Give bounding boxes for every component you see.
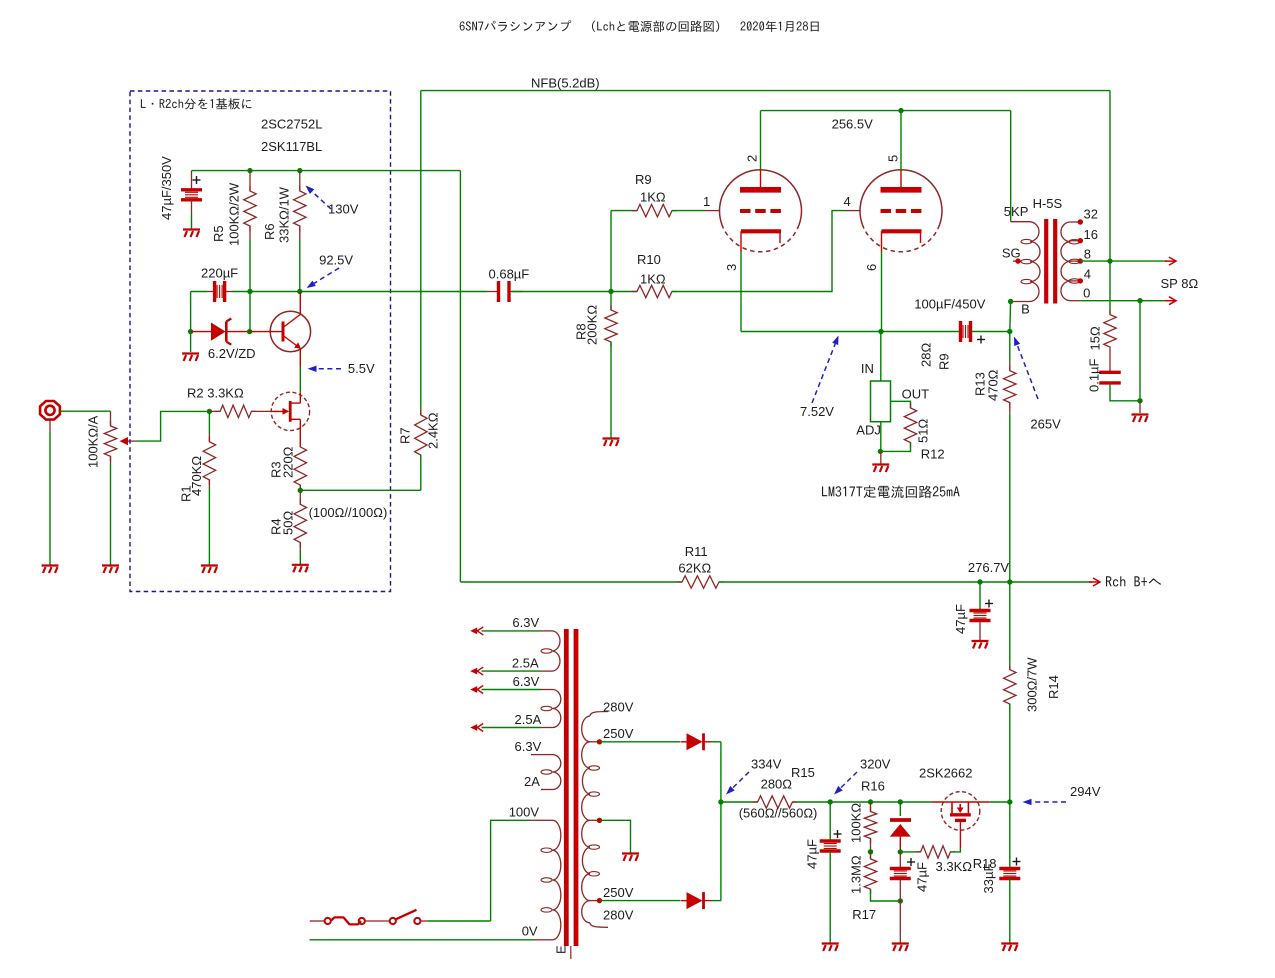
ground R1 bbox=[201, 566, 218, 574]
220µF lead R bbox=[225, 291, 232, 293]
ground pot bbox=[102, 566, 119, 574]
wire jack to pot bbox=[60, 410, 111, 412]
capacitor 0.68µF bbox=[499, 281, 510, 302]
dashed module box bbox=[130, 91, 391, 592]
resistor R4 50Ω bbox=[294, 499, 306, 547]
wire R13 down to 276V rail bbox=[1009, 414, 1011, 582]
wire emitter to drain bbox=[299, 367, 301, 392]
wire NFB bbox=[421, 90, 1110, 92]
resistor 15Ω bbox=[1104, 310, 1116, 352]
PT winding 630.9 bbox=[553, 631, 560, 671]
svg-text:100KΩ: 100KΩ bbox=[848, 803, 863, 843]
svg-text:R9: R9 bbox=[937, 353, 952, 370]
wire 250V to diode b bbox=[600, 900, 681, 902]
svg-text:1.3MΩ: 1.3MΩ bbox=[848, 855, 863, 894]
heater wire 727.5 bbox=[482, 727, 542, 729]
wire LM317 IN bbox=[880, 332, 882, 382]
svg-text:R11: R11 bbox=[685, 544, 708, 559]
node R5 bottom bbox=[247, 289, 252, 294]
svg-text:5KP: 5KP bbox=[1004, 204, 1029, 219]
transistor Q 2SC2752 bbox=[250, 292, 311, 368]
transformer T1 H-5S core bbox=[1046, 219, 1055, 304]
switch SW bbox=[366, 910, 421, 924]
wire cathode bus bbox=[741, 331, 960, 333]
svg-text:R16: R16 bbox=[861, 779, 885, 794]
node zener/R18/47µF bbox=[898, 849, 903, 854]
svg-text:R17: R17 bbox=[852, 907, 876, 922]
tap 4 lead bbox=[1071, 280, 1081, 282]
winding lead bbox=[541, 754, 553, 756]
arrow heater 630.9 bbox=[470, 627, 483, 635]
input jack bbox=[40, 401, 60, 420]
svg-text:256.5V: 256.5V bbox=[832, 117, 874, 132]
wire D2 out bbox=[712, 900, 721, 902]
annotation arrow 92.5V bbox=[307, 268, 340, 288]
ground zener bbox=[182, 354, 199, 362]
heater wire 671.1 bbox=[482, 670, 542, 672]
resistor R17 1.3MΩ bbox=[864, 854, 876, 894]
node gnd 47µF b bbox=[898, 898, 903, 903]
svg-text:92.5V: 92.5V bbox=[319, 253, 353, 268]
svg-text:5.5V: 5.5V bbox=[348, 361, 375, 376]
svg-text:220Ω: 220Ω bbox=[281, 446, 296, 478]
wire 130V feed down bbox=[459, 171, 461, 582]
svg-text:4: 4 bbox=[1084, 267, 1091, 282]
wire R4 ground bbox=[299, 550, 301, 564]
R6 lead bbox=[299, 171, 301, 191]
resistor R13 470Ω bbox=[1004, 366, 1016, 408]
ground R4 bbox=[292, 565, 309, 573]
svg-text:334V: 334V bbox=[751, 756, 782, 771]
svg-text:220µF: 220µF bbox=[201, 266, 238, 281]
wire R7 bottom bbox=[420, 455, 422, 490]
annotation arrow 265V bbox=[1014, 337, 1038, 400]
ground 47µF B+ bbox=[972, 641, 989, 649]
diode D2 bbox=[681, 892, 712, 909]
node R8/R9/R10 bbox=[608, 289, 613, 294]
fuse bbox=[325, 917, 365, 924]
wire 0 to ground bbox=[1139, 301, 1141, 401]
terminal SG bbox=[1015, 258, 1020, 263]
arrow Rch B+ arrow bbox=[1089, 578, 1100, 586]
resistor R12 51Ω bbox=[904, 403, 916, 448]
svg-text:R6: R6 bbox=[262, 223, 277, 240]
wire 250V to diode bbox=[600, 741, 681, 743]
svg-text:250V: 250V bbox=[603, 726, 634, 741]
svg-text:2SK2662: 2SK2662 bbox=[919, 766, 973, 781]
svg-text:32: 32 bbox=[1084, 207, 1098, 222]
grid2 stub bbox=[846, 210, 861, 212]
svg-text:R2 3.3KΩ: R2 3.3KΩ bbox=[187, 385, 244, 400]
R8 top lead bbox=[610, 292, 612, 311]
svg-text:470KΩ: 470KΩ bbox=[189, 456, 204, 496]
ground LM317 bbox=[872, 465, 889, 473]
R1 lead bbox=[208, 434, 210, 442]
annotation arrow 7.52V bbox=[812, 336, 839, 404]
svg-text:6.3V: 6.3V bbox=[512, 615, 539, 630]
wire B+ rail left bbox=[460, 581, 682, 583]
svg-text:2.5A: 2.5A bbox=[515, 712, 542, 727]
capacitor 47µF/350V bbox=[181, 190, 202, 200]
svg-text:100V: 100V bbox=[509, 804, 540, 819]
cap lead2 bbox=[899, 879, 901, 902]
node 294V bbox=[1007, 799, 1012, 804]
R4 lead bbox=[299, 490, 301, 504]
B lead bbox=[1011, 301, 1030, 303]
arrow SP out hot bbox=[1165, 257, 1176, 265]
wire to OPT primary bbox=[1010, 111, 1012, 222]
node plate2 bbox=[898, 108, 903, 113]
svg-text:6.3V: 6.3V bbox=[515, 739, 542, 754]
svg-text:276.7V: 276.7V bbox=[968, 560, 1010, 575]
grid1 stub bbox=[705, 210, 720, 212]
cap lead bbox=[191, 200, 193, 214]
winding lead bbox=[541, 819, 553, 821]
winding lead bbox=[541, 689, 553, 691]
wire jack ground lead bbox=[49, 420, 51, 432]
capacitor 220µF bbox=[215, 281, 225, 302]
svg-text:R5: R5 bbox=[211, 225, 226, 242]
svg-text:E: E bbox=[554, 945, 569, 954]
wire MOSFET to node bbox=[989, 801, 1010, 803]
node 0/ground bbox=[1137, 298, 1142, 303]
resistor R9 1KΩ bbox=[632, 204, 677, 216]
capacitor 47µF gate bbox=[890, 869, 911, 879]
ground 47µF/350V bbox=[183, 230, 200, 238]
svg-text:280V: 280V bbox=[603, 700, 634, 715]
HV winding top bbox=[582, 716, 590, 742]
svg-text:4: 4 bbox=[844, 194, 851, 209]
wire zobel bottom bbox=[1110, 383, 1140, 401]
wire NFB down to R7 bbox=[420, 91, 422, 415]
node NFB/8Ω bbox=[1107, 258, 1112, 263]
svg-text:470Ω: 470Ω bbox=[985, 369, 1000, 401]
OPT secondary winding bbox=[1061, 222, 1071, 301]
0.68µF leads bbox=[487, 291, 499, 293]
wire R18 to source bbox=[950, 848, 960, 852]
wire 33µF bbox=[1009, 802, 1011, 869]
svg-text:6: 6 bbox=[864, 264, 879, 271]
R16 lead2 bbox=[870, 839, 872, 852]
annotation arrow 294V bbox=[1023, 799, 1067, 805]
wire B+ rail right bbox=[719, 581, 1092, 583]
wire to zener bbox=[190, 292, 192, 332]
resistor R3 220Ω bbox=[294, 442, 306, 490]
zener diode gate protection bbox=[890, 820, 911, 852]
svg-text:33KΩ/1W: 33KΩ/1W bbox=[277, 186, 292, 243]
node collector bbox=[297, 289, 302, 294]
diode D1 bbox=[681, 733, 712, 750]
tap 32 lead bbox=[1071, 221, 1081, 223]
svg-text:(100Ω//100Ω): (100Ω//100Ω) bbox=[309, 505, 388, 520]
0V stub bbox=[534, 939, 541, 941]
svg-text:280V: 280V bbox=[603, 908, 634, 923]
arrow heater 671.1 bbox=[470, 667, 483, 675]
cap lead2 bbox=[979, 621, 981, 641]
R16 lead bbox=[870, 802, 872, 812]
svg-text:(560Ω//560Ω): (560Ω//560Ω) bbox=[739, 805, 818, 820]
terminal 250V bottom bbox=[597, 898, 602, 903]
svg-text:H-5S: H-5S bbox=[1033, 196, 1063, 211]
tap 16 lead bbox=[1071, 240, 1081, 242]
wire 33µF down bbox=[1009, 879, 1011, 943]
wire R9 to grid1 bbox=[672, 210, 705, 212]
capacitor 100µF/450V bbox=[961, 321, 971, 342]
svg-text:265V: 265V bbox=[1030, 417, 1061, 432]
svg-text:250V: 250V bbox=[603, 885, 634, 900]
HV winding 2 bbox=[582, 742, 590, 821]
HV winding 3 bbox=[582, 820, 590, 900]
resistor R16 100KΩ bbox=[864, 807, 876, 844]
wire 92.5V left bbox=[191, 291, 207, 293]
pot bottom lead bbox=[110, 456, 112, 464]
100V stub bbox=[531, 819, 541, 821]
svg-text:2.5A: 2.5A bbox=[512, 655, 539, 670]
wire PSU rail a bbox=[721, 801, 758, 803]
svg-text:OUT: OUT bbox=[902, 387, 930, 402]
wire CT to ground bbox=[600, 820, 631, 852]
svg-text:SG: SG bbox=[1002, 246, 1021, 261]
wire D1 out bbox=[712, 741, 721, 743]
heater wire 630.9 bbox=[482, 630, 542, 632]
tap 0 lead bbox=[1071, 300, 1081, 302]
220µF lead L bbox=[207, 291, 215, 293]
svg-text:0.1µF: 0.1µF bbox=[1087, 358, 1102, 392]
node R5 top bbox=[247, 168, 252, 173]
svg-text:0.68µF: 0.68µF bbox=[489, 267, 530, 282]
transistor Q 2SK117 JFET bbox=[271, 392, 309, 447]
wire cathode2 down bbox=[881, 252, 883, 332]
heater wire 689.5 bbox=[482, 689, 542, 691]
svg-text:8: 8 bbox=[1084, 247, 1091, 262]
wire R1 top bbox=[208, 411, 210, 434]
svg-text:100µF/450V: 100µF/450V bbox=[914, 296, 985, 311]
wire 130V rail bbox=[192, 170, 461, 172]
zener diode 6.2V/ZD bbox=[191, 319, 250, 345]
R4 lead2 bbox=[299, 543, 301, 551]
wire PSU rail b bbox=[792, 801, 932, 803]
arrow heater 727.5 bbox=[470, 724, 483, 732]
resistor R1 470KΩ bbox=[203, 437, 215, 485]
R9 lead left bbox=[611, 210, 637, 212]
resistor R18 3.3KΩ bbox=[916, 846, 956, 858]
node R16 top bbox=[868, 799, 873, 804]
wire node to R10 bbox=[611, 291, 637, 293]
winding lead bbox=[541, 630, 553, 632]
node cathodes/LM317 IN bbox=[878, 329, 883, 334]
node zener top bbox=[898, 799, 903, 804]
wire 47µF a bbox=[829, 802, 831, 841]
transistor Q 2SK2662 MOSFET bbox=[932, 792, 990, 848]
svg-text:2SK117BL: 2SK117BL bbox=[261, 139, 322, 154]
svg-text:NFB(5.2dB): NFB(5.2dB) bbox=[531, 76, 600, 91]
svg-text:3.3KΩ: 3.3KΩ bbox=[936, 859, 973, 874]
svg-text:2.4KΩ: 2.4KΩ bbox=[426, 412, 441, 449]
PT winding 754.6 bbox=[553, 755, 561, 790]
svg-text:62KΩ: 62KΩ bbox=[678, 561, 711, 576]
wire R14 top bbox=[1009, 582, 1011, 670]
svg-text:50Ω: 50Ω bbox=[281, 511, 296, 535]
capacitor 0.1µF bbox=[1099, 372, 1121, 383]
terminal 250V top bbox=[597, 739, 602, 744]
wire R7 to cathode node bbox=[300, 489, 421, 491]
wire 8Ω out bbox=[1080, 260, 1167, 262]
svg-text:200KΩ: 200KΩ bbox=[585, 305, 600, 345]
ground 33µF bbox=[1001, 944, 1018, 952]
node B/R13 bbox=[1007, 329, 1012, 334]
svg-text:130V: 130V bbox=[328, 202, 359, 217]
svg-text:1KΩ: 1KΩ bbox=[640, 272, 666, 287]
resistor R7 2.4KΩ bbox=[415, 410, 427, 460]
svg-text:R9: R9 bbox=[635, 172, 652, 187]
wire B down bbox=[1009, 302, 1012, 332]
wire R6 bottom bbox=[299, 240, 301, 292]
title bbox=[460, 20, 819, 32]
resistor R10 1KΩ bbox=[632, 285, 677, 297]
svg-text:ADJ: ADJ bbox=[856, 422, 881, 437]
wire R5 bottom bbox=[249, 240, 251, 292]
svg-text:16: 16 bbox=[1084, 227, 1098, 242]
PT winding 689.5 bbox=[553, 690, 561, 728]
wire plate1 up bbox=[760, 111, 762, 170]
wire cap to B node bbox=[971, 331, 1010, 333]
node zener cathode / base bbox=[247, 329, 252, 334]
zobel lead bbox=[1109, 352, 1111, 372]
pot wiper arrow bbox=[120, 437, 129, 445]
cap C 47µF/350V top lead bbox=[191, 171, 193, 190]
R13 lead bbox=[1009, 361, 1011, 371]
R17 lead bbox=[870, 852, 872, 859]
250V tap lead bbox=[590, 741, 600, 743]
wire cap to ground bbox=[191, 213, 193, 229]
R18 lead left bbox=[900, 851, 920, 853]
core earth lead E bbox=[570, 946, 572, 959]
5KP lead bbox=[1011, 221, 1030, 223]
wire 0V bbox=[310, 939, 534, 941]
PT winding 820.3 bbox=[553, 820, 561, 940]
node zener anode bbox=[188, 329, 193, 334]
HV winding bottom bbox=[582, 901, 590, 923]
R1 lead2 bbox=[208, 480, 210, 487]
wire cap to R8 node bbox=[512, 291, 612, 293]
wire 47µF a down bbox=[829, 851, 831, 943]
resistor R5 100KΩ/2W bbox=[244, 186, 256, 231]
resistor R8 200KΩ bbox=[605, 305, 617, 347]
svg-text:51Ω: 51Ω bbox=[916, 419, 931, 443]
wire zobel top bbox=[1109, 261, 1111, 315]
node R1/R2 junction bbox=[207, 409, 212, 414]
wire to ground bbox=[899, 901, 901, 943]
label Rch B+ bbox=[1106, 576, 1161, 586]
svg-text:0: 0 bbox=[1083, 286, 1090, 301]
280V stub bottom bbox=[590, 923, 608, 928]
terminal tap 4 bbox=[1078, 278, 1083, 283]
ground 47µF 320V bbox=[822, 944, 839, 952]
ground 47µF gate bbox=[892, 944, 909, 952]
ground CT bbox=[622, 854, 639, 862]
resistor R14 300Ω/7W bbox=[1004, 665, 1016, 709]
node R6 top bbox=[297, 168, 302, 173]
svg-text:3: 3 bbox=[724, 264, 739, 271]
tube V1 6SN7 unit A bbox=[720, 170, 802, 252]
capacitor 47µF B+ bbox=[970, 611, 991, 621]
wire plate rail 256.5V bbox=[761, 110, 1011, 112]
svg-text:28Ω: 28Ω bbox=[919, 343, 934, 367]
wire R8 to ground bbox=[610, 342, 612, 438]
resistor R2 3.3KΩ bbox=[215, 405, 256, 417]
svg-text:R7: R7 bbox=[398, 427, 413, 444]
svg-text:47µF: 47µF bbox=[805, 839, 820, 869]
wire rectifier join bbox=[720, 742, 722, 901]
wire NFB right drop bbox=[1109, 91, 1111, 262]
wire R14 bottom bbox=[1009, 704, 1011, 802]
svg-text:6.2V/ZD: 6.2V/ZD bbox=[208, 346, 256, 361]
terminal tap 8 bbox=[1078, 258, 1083, 263]
node zobel ground bbox=[1137, 398, 1142, 403]
2A stub bbox=[541, 789, 543, 791]
node R16/R17 bbox=[868, 849, 873, 854]
R6 lead2 bbox=[299, 226, 301, 240]
svg-text:7.52V: 7.52V bbox=[800, 404, 834, 419]
terminal CT bbox=[597, 818, 602, 823]
node ADJ bbox=[878, 449, 883, 454]
svg-text:R12: R12 bbox=[921, 447, 945, 462]
R3 lead bbox=[299, 485, 301, 490]
svg-text:2SC2752L: 2SC2752L bbox=[261, 117, 322, 132]
potentiometer 100KΩ/A body bbox=[104, 421, 116, 461]
label LM317T note bbox=[822, 485, 960, 498]
svg-text:R10: R10 bbox=[637, 252, 661, 267]
svg-text:100KΩ/2W: 100KΩ/2W bbox=[227, 182, 242, 246]
capacitor 33µF bbox=[999, 869, 1020, 879]
280V stub top bbox=[590, 712, 608, 717]
arrow heater 689.5 bbox=[470, 686, 483, 694]
ground R8 bbox=[603, 439, 620, 447]
svg-text:5: 5 bbox=[886, 155, 901, 162]
wire R12 to ADJ bbox=[880, 443, 910, 452]
zener lead bbox=[899, 802, 901, 816]
capacitor 47µF 320V bbox=[820, 841, 841, 851]
SG lead bbox=[1013, 260, 1021, 262]
svg-text:33µF: 33µF bbox=[981, 864, 996, 894]
wire OUT bbox=[891, 401, 911, 408]
R5 lead bbox=[249, 171, 251, 191]
resistor R15 280Ω bbox=[753, 796, 798, 808]
node R14 top bbox=[1007, 579, 1012, 584]
ground zobel bbox=[1132, 415, 1149, 423]
resistor R11 62KΩ bbox=[677, 576, 724, 588]
250V tap lead b bbox=[590, 900, 600, 902]
svg-text:1: 1 bbox=[703, 194, 710, 209]
6.3V 2A stub bbox=[531, 754, 541, 756]
wire R5col to zener bbox=[249, 292, 251, 332]
zobel gnd lead bbox=[1139, 401, 1141, 413]
wire 0 out bbox=[1080, 300, 1167, 302]
wire zener to ground bbox=[190, 332, 192, 352]
R2 lead left bbox=[209, 410, 220, 412]
svg-text:B: B bbox=[1021, 302, 1030, 317]
wire plate2 up bbox=[900, 111, 902, 170]
wire 100V lead bbox=[491, 820, 531, 921]
terminal tap 32 bbox=[1078, 219, 1083, 224]
OPT primary winding bbox=[1030, 222, 1040, 302]
svg-text:47µF: 47µF bbox=[953, 604, 968, 634]
tube V2 6SN7 unit B bbox=[860, 170, 942, 252]
node B terminal bbox=[1008, 299, 1013, 304]
node R3/R4/NFB bbox=[298, 488, 303, 493]
wire wiper to R2 node bbox=[137, 411, 207, 441]
R2 lead to gate bbox=[251, 410, 271, 412]
